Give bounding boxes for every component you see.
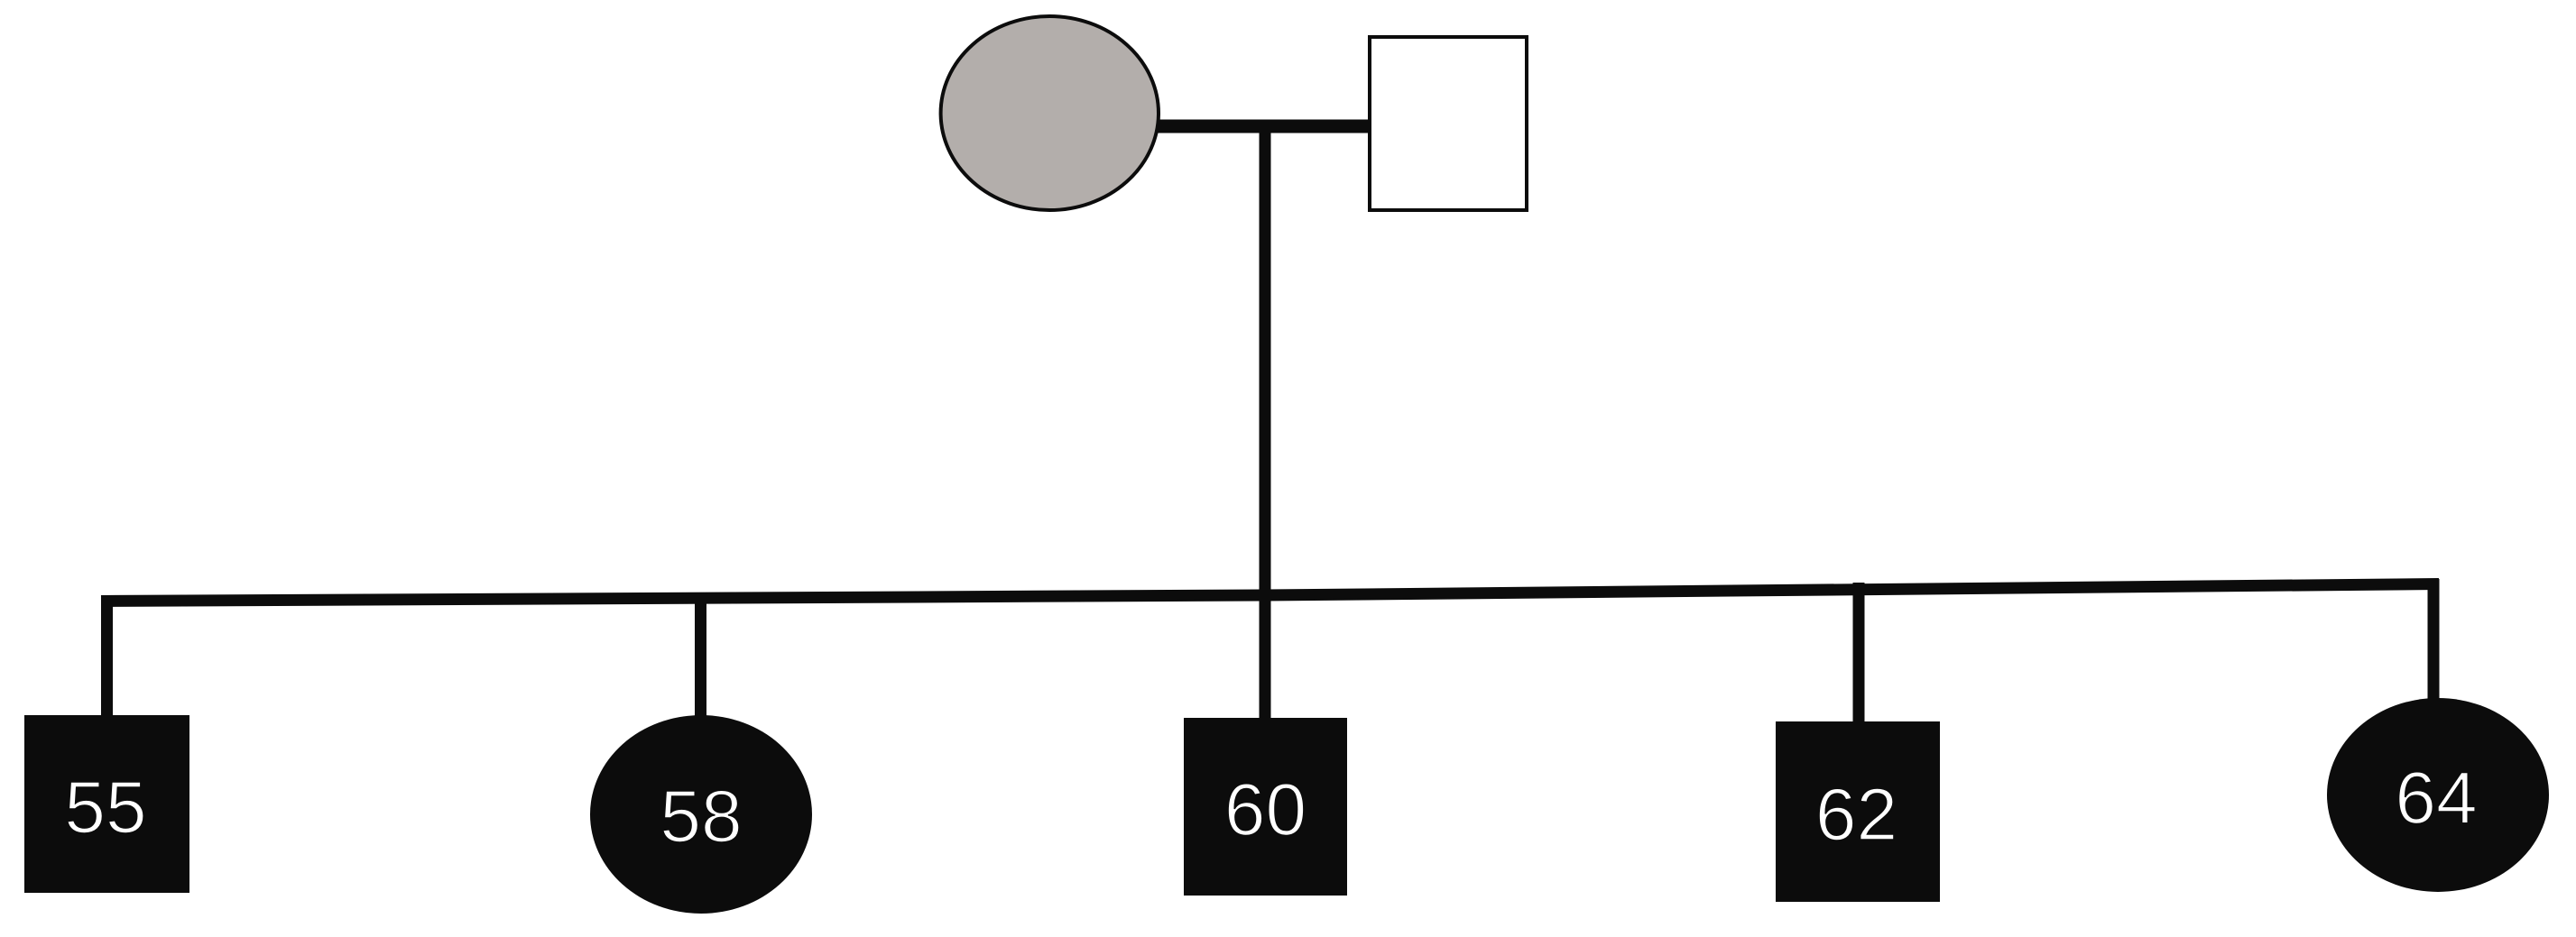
drop line to child II-1 (55) bbox=[101, 595, 113, 721]
child II-1: affected male, black square bbox=[24, 715, 189, 893]
drop line to child II-2 (58) bbox=[695, 593, 706, 721]
svg-text:60: 60 bbox=[1224, 769, 1306, 851]
child II-3: affected male, black square bbox=[1184, 718, 1347, 896]
svg-text:64: 64 bbox=[2395, 758, 2477, 840]
drop line to child II-5 (64) bbox=[2428, 579, 2440, 705]
child II-2: affected female, black circle bbox=[590, 715, 812, 914]
child II-5: affected female, black circle bbox=[2327, 698, 2549, 892]
svg-text:62: 62 bbox=[1815, 774, 1897, 856]
child II-4: affected male, black square bbox=[1776, 721, 1940, 902]
svg-text:58: 58 bbox=[660, 776, 742, 858]
sibship line bbox=[101, 584, 2439, 602]
descent line from couple to sibship line and child II-3 bbox=[1260, 126, 1271, 721]
drop line to child II-4 (62) bbox=[1853, 583, 1865, 727]
mother I-1: gray filled circle bbox=[941, 16, 1159, 210]
couple line between I-1 and I-2 bbox=[1153, 120, 1373, 133]
father I-2: white square bbox=[1370, 37, 1527, 210]
svg-text:55: 55 bbox=[64, 767, 146, 849]
